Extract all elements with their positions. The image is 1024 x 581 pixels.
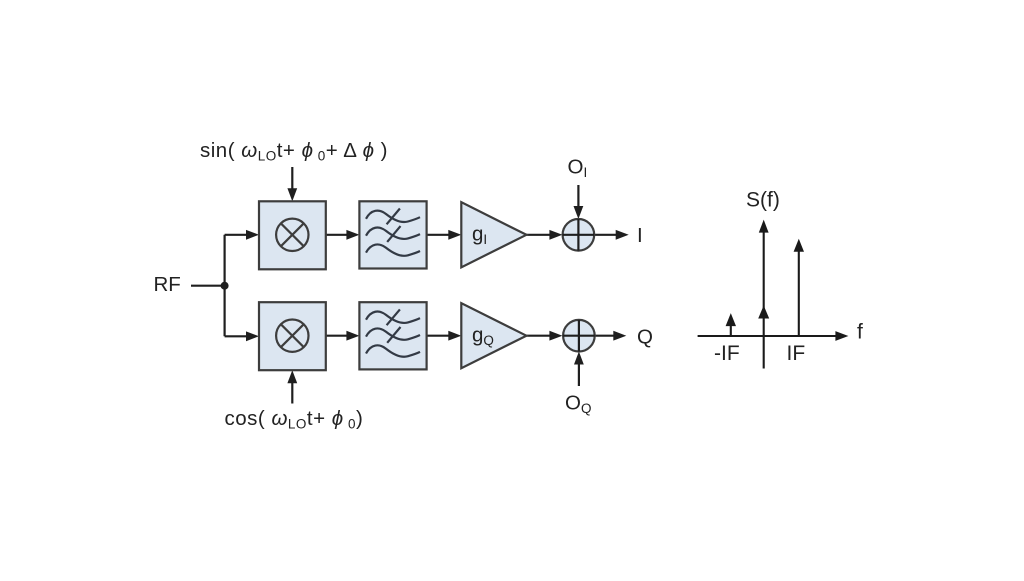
svg-text:S(f): S(f) — [746, 189, 780, 212]
svg-text:IF: IF — [787, 342, 806, 365]
svg-text:Q: Q — [637, 326, 653, 349]
svg-text:f: f — [857, 321, 863, 344]
svg-text:RF: RF — [154, 273, 181, 296]
svg-text:-IF: -IF — [714, 342, 740, 365]
svg-text:sin( ωLOt+ ϕ 0+ Δ ϕ ): sin( ωLOt+ ϕ 0+ Δ ϕ ) — [200, 139, 388, 164]
svg-text:I: I — [637, 224, 643, 247]
